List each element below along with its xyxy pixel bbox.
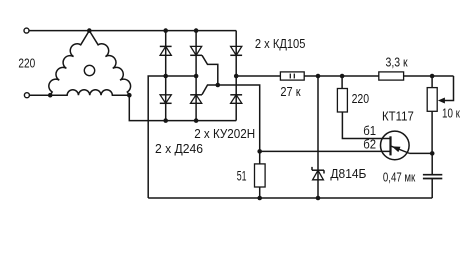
- wire top rail: [29, 30, 236, 32]
- wire right branch to R1: [236, 75, 280, 77]
- svg-text:2 х КУ202Н: 2 х КУ202Н: [194, 126, 255, 140]
- svg-text:2 х КД105: 2 х КД105: [255, 36, 306, 51]
- label КТ117: [382, 109, 414, 124]
- resistor R5 51: [255, 151, 266, 200]
- zener VD5 Д814Б: [312, 167, 324, 180]
- svg-text:3,3 к: 3,3 к: [386, 57, 409, 70]
- capacitor C1 0,47мк: [423, 153, 442, 198]
- wire left branch middle: [163, 74, 168, 79]
- wire gates to trigger node: [218, 85, 260, 151]
- label 0,47 мк: [383, 171, 415, 184]
- wire base2 lead: [260, 150, 391, 152]
- svg-text:0,47 мк: 0,47 мк: [383, 171, 415, 184]
- wire bottom terminal to motor: [30, 94, 51, 96]
- svg-text:Д814Б: Д814Б: [330, 167, 366, 181]
- wire right branch top lead: [235, 31, 237, 121]
- diode VD1 Д246 (left top, cathode up): [160, 46, 172, 55]
- motor rotor circle: [84, 65, 94, 75]
- wire motor to bridge bottom rail: [129, 95, 236, 120]
- wire mid rail to left column: [148, 76, 196, 198]
- wire middle branch bottom lead: [194, 118, 199, 123]
- label 220 (R2): [352, 93, 370, 106]
- resistor R1 27к (2W): [280, 72, 304, 80]
- label 2хКД105: [255, 36, 306, 51]
- terminal X2 (mains bottom): [24, 93, 29, 98]
- wire zener branch from rail: [317, 76, 319, 198]
- diode VD3 КД105 (right top, cathode down): [230, 46, 242, 55]
- label б2: [363, 137, 376, 152]
- svg-text:КТ117: КТ117: [382, 109, 414, 124]
- wire left branch top lead: [163, 28, 168, 120]
- label 2хКУ202Н: [194, 126, 255, 140]
- svg-text:2 х Д246: 2 х Д246: [155, 142, 203, 156]
- potentiometer R4 10к: [427, 76, 437, 153]
- node motor bottom-right vertex: [127, 93, 132, 98]
- node thyristor gates junction: [216, 83, 221, 88]
- thyristor VS2 КУ202Н (middle bottom, cathode up): [190, 85, 218, 103]
- UJT Q1 КТ117: [381, 131, 410, 160]
- diode VD2 Д246 (left bottom, cathode down): [160, 95, 172, 104]
- wire R2 to base1: [342, 112, 390, 139]
- label 2хД246: [155, 142, 203, 156]
- wire zener to bottom rail: [316, 196, 321, 201]
- motor M1 delta winding: [49, 31, 131, 96]
- terminal X1 (mains top): [24, 28, 29, 33]
- label б1: [363, 123, 376, 138]
- label 3,3 к: [386, 57, 409, 70]
- diode VD4 КД105 (right bottom, cathode up): [230, 95, 242, 104]
- wire emitter to timing node: [410, 151, 435, 156]
- svg-text:27 к: 27 к: [280, 86, 301, 100]
- wire potentiometer wiper: [438, 76, 454, 104]
- wire R3 to potentiometer top: [404, 74, 454, 79]
- wire bottom rail: [148, 197, 432, 199]
- wire R1 to R2 rail: [304, 74, 379, 79]
- svg-text:220: 220: [352, 93, 370, 106]
- thyristor VS1 КУ202Н (middle top, cathode down): [190, 46, 218, 83]
- node motor bottom-left vertex: [48, 93, 53, 98]
- node motor top vertex: [87, 28, 92, 33]
- node trigger (51 top): [257, 149, 262, 154]
- label 51: [237, 170, 247, 184]
- label 10 к: [442, 107, 460, 120]
- wire left branch bottom lead: [163, 118, 168, 123]
- wire middle branch top lead: [194, 28, 199, 120]
- wire middle branch middle: [194, 74, 199, 79]
- svg-text:51: 51: [237, 170, 247, 184]
- resistor R2 220: [337, 76, 347, 112]
- svg-text:220: 220: [18, 58, 35, 71]
- wire right branch middle: [234, 74, 239, 79]
- label 27 к: [280, 86, 301, 100]
- svg-text:10 к: 10 к: [442, 107, 460, 120]
- label 220 mains voltage: [18, 58, 35, 71]
- resistor R3 3,3к: [379, 72, 404, 80]
- label Д814Б: [330, 167, 366, 181]
- svg-text:б2: б2: [363, 137, 376, 152]
